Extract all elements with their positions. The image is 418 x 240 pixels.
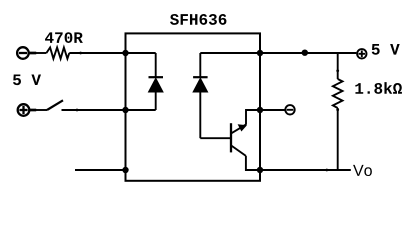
collector lead up to output row — [246, 110, 260, 125]
label 470R — [45, 32, 83, 43]
wire photodiode anode to transistor base — [200, 137, 230, 139]
pin tick — [325, 169, 328, 172]
LED D1 (emitter diode) — [149, 77, 164, 110]
wire T2 to switch SW1 — [30, 109, 36, 112]
output wire Vo — [260, 169, 351, 171]
node: box left edge x middle wire — [122, 107, 128, 113]
terminal T3 (plus, top right) — [357, 49, 366, 58]
phototransistor Q1 — [231, 123, 247, 156]
photodiode D2 — [193, 77, 208, 138]
node on 5V rail — [302, 50, 308, 56]
switch SW1 blade — [47, 100, 63, 110]
terminal T4 (minus, right middle) — [285, 105, 294, 114]
resistor R2 top lead — [337, 53, 339, 79]
resistor R1 470R — [46, 48, 69, 59]
stub wire bottom left into box — [75, 169, 126, 171]
wire box edge to terminal T3 (5V rail) — [260, 52, 356, 54]
optocoupler package box SFH636 — [126, 33, 261, 180]
label 5 V (left supply) — [13, 74, 41, 85]
wire LED anode to box left edge — [126, 109, 156, 111]
photodiode D2 top wire — [200, 52, 260, 54]
label Vo — [353, 165, 372, 176]
resistor R2 bottom lead — [337, 108, 339, 170]
photodiode D2 cathode lead — [199, 53, 201, 77]
pin tick — [336, 108, 339, 111]
label 5 V (right supply) — [372, 44, 400, 55]
node: box left edge x stub — [122, 167, 128, 173]
label SFH636 — [170, 14, 226, 25]
node: box right edge x top wire — [257, 50, 263, 56]
wire box edge to terminal T4 — [260, 109, 285, 111]
pin tick — [336, 69, 339, 72]
terminal T2 (plus, bottom left) — [18, 104, 30, 116]
terminal T1 (minus, top left) — [17, 47, 29, 59]
node: box left edge x top wire — [122, 50, 128, 56]
pin tick — [76, 109, 79, 112]
wire switch contact to box left edge — [62, 109, 126, 111]
node: box right edge x emitter row — [257, 167, 263, 173]
wire R1 to LED anode top, crossing box left edge — [69, 52, 155, 54]
resistor R2 1.8k zigzag — [333, 79, 343, 108]
label 1.8kOhm — [355, 82, 402, 94]
wire T1 to resistor R1 — [29, 52, 36, 55]
node: box right edge x collector row — [257, 107, 263, 113]
emitter lead down to Vo row — [246, 156, 260, 170]
pin tick — [79, 52, 82, 55]
LED D1 cathode lead — [155, 53, 157, 77]
